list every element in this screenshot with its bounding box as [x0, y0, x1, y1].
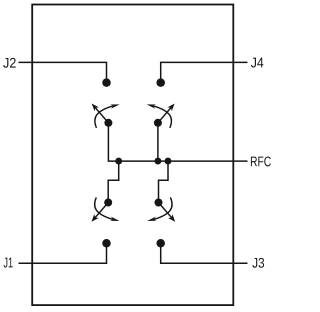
- wire J4: [161, 62, 248, 82]
- junction node right: [165, 158, 172, 165]
- contact dot J3: [156, 239, 165, 248]
- wire to bottom-right switch: [159, 161, 169, 202]
- wire J3: [161, 243, 248, 263]
- wire stem top-right switch: [157, 123, 159, 161]
- switch top-right: [147, 104, 175, 128]
- switch bottom-right: [147, 197, 175, 221]
- wire J2: [19, 62, 107, 82]
- port label RFC: [251, 156, 271, 166]
- wire RFC bus: [108, 123, 247, 161]
- contact dot J2: [102, 78, 111, 87]
- port label J3: [252, 258, 264, 268]
- wire J1: [19, 243, 107, 263]
- switch bottom-left: [92, 197, 120, 221]
- contact dot J4: [156, 78, 165, 87]
- enclosure box: [32, 5, 233, 306]
- junction node left: [115, 158, 122, 165]
- port label J1: [4, 258, 13, 268]
- switch top-left: [92, 104, 120, 128]
- contact dot J1: [102, 239, 111, 248]
- wire to bottom-left switch: [108, 161, 119, 202]
- port label J2: [3, 58, 16, 68]
- port label J4: [251, 58, 264, 68]
- junction node center: [154, 158, 161, 165]
